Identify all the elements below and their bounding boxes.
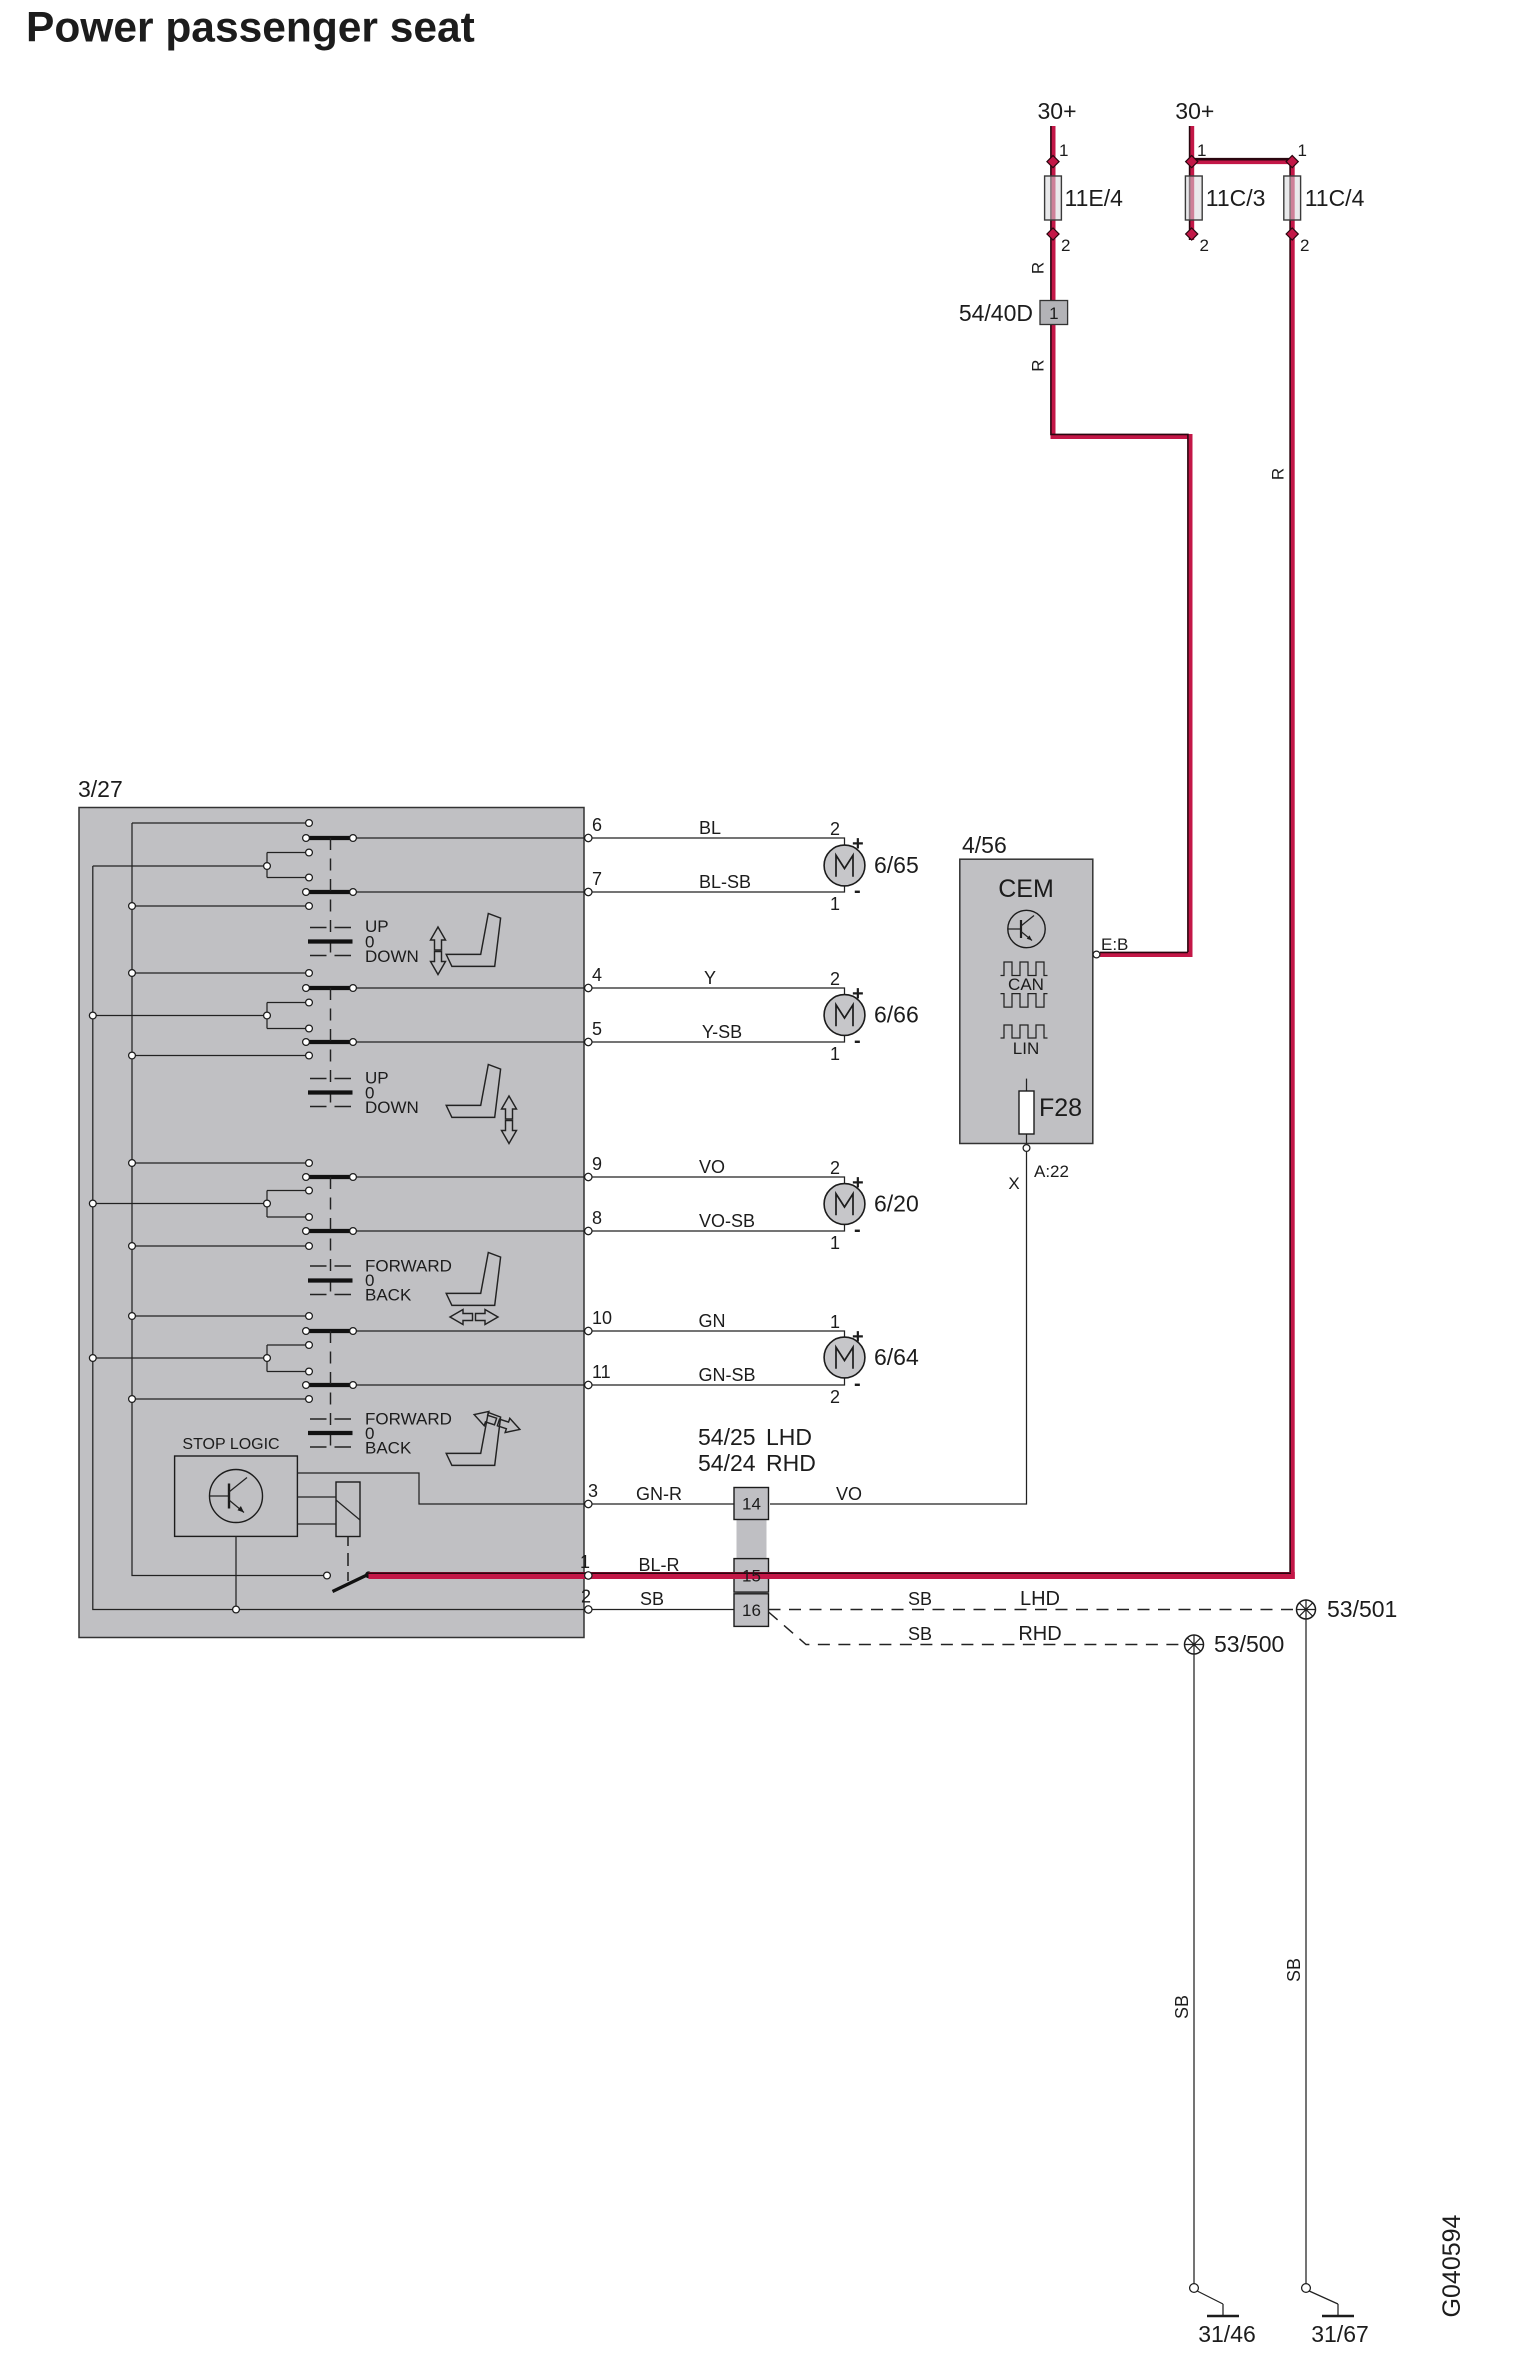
svg-text:4/56: 4/56	[962, 832, 1007, 858]
svg-text:1: 1	[830, 1044, 840, 1064]
svg-text:R: R	[1029, 359, 1048, 371]
svg-text:1: 1	[1298, 141, 1307, 160]
svg-text:2: 2	[830, 819, 840, 839]
svg-text:-: -	[854, 1373, 861, 1395]
svg-text:3: 3	[588, 1481, 598, 1501]
svg-text:G040594: G040594	[1438, 2214, 1466, 2317]
svg-text:2: 2	[1200, 236, 1209, 255]
svg-text:15: 15	[742, 1567, 761, 1586]
svg-text:GN: GN	[699, 1311, 726, 1331]
svg-text:BL: BL	[699, 818, 721, 838]
svg-text:1: 1	[830, 894, 840, 914]
svg-text:11C/4: 11C/4	[1305, 185, 1365, 211]
svg-text:30+: 30+	[1037, 98, 1076, 124]
svg-text:9: 9	[592, 1154, 602, 1174]
svg-text:DOWN: DOWN	[365, 947, 419, 966]
svg-text:VO-SB: VO-SB	[699, 1211, 755, 1231]
svg-text:Y: Y	[704, 968, 716, 988]
svg-text:16: 16	[742, 1601, 761, 1620]
svg-text:R: R	[1029, 262, 1048, 274]
svg-text:2: 2	[581, 1587, 591, 1607]
svg-text:CAN: CAN	[1008, 975, 1044, 994]
svg-text:54/24: 54/24	[698, 1450, 756, 1476]
svg-text:BACK: BACK	[365, 1286, 412, 1305]
svg-text:+: +	[852, 1172, 864, 1194]
svg-text:2: 2	[830, 1158, 840, 1178]
svg-text:31/46: 31/46	[1198, 2321, 1256, 2347]
svg-text:-: -	[854, 880, 861, 902]
svg-text:4: 4	[592, 965, 602, 985]
svg-text:2: 2	[1061, 236, 1070, 255]
svg-text:2: 2	[830, 1387, 840, 1407]
svg-text:2: 2	[830, 969, 840, 989]
svg-text:1: 1	[1049, 304, 1058, 323]
svg-text:FORWARD: FORWARD	[365, 1257, 452, 1276]
svg-text:SB: SB	[908, 1589, 932, 1609]
svg-text:54/25: 54/25	[698, 1424, 756, 1450]
svg-text:30+: 30+	[1175, 98, 1214, 124]
svg-text:1: 1	[1197, 141, 1206, 160]
svg-text:6/20: 6/20	[874, 1191, 919, 1217]
svg-text:6/65: 6/65	[874, 852, 919, 878]
svg-text:1: 1	[830, 1312, 840, 1332]
svg-text:31/67: 31/67	[1311, 2321, 1369, 2347]
svg-text:STOP LOGIC: STOP LOGIC	[182, 1436, 279, 1453]
svg-text:1: 1	[830, 1233, 840, 1253]
svg-text:Y-SB: Y-SB	[702, 1022, 742, 1042]
svg-text:LHD: LHD	[766, 1424, 812, 1450]
svg-text:Power passenger seat: Power passenger seat	[26, 5, 475, 52]
svg-text:VO: VO	[699, 1157, 725, 1177]
svg-text:X: X	[1008, 1174, 1019, 1193]
svg-text:DOWN: DOWN	[365, 1098, 419, 1117]
svg-text:VO: VO	[836, 1484, 862, 1504]
svg-text:SB: SB	[1172, 1995, 1192, 2019]
svg-text:6/66: 6/66	[874, 1002, 919, 1028]
svg-text:SB: SB	[908, 1624, 932, 1644]
svg-text:-: -	[854, 1030, 861, 1052]
svg-text:BL-SB: BL-SB	[699, 872, 751, 892]
svg-text:11: 11	[592, 1362, 611, 1382]
svg-text:2: 2	[1300, 236, 1309, 255]
svg-text:8: 8	[592, 1208, 602, 1228]
svg-text:3/27: 3/27	[78, 776, 123, 802]
svg-text:+: +	[852, 983, 864, 1005]
svg-text:6/64: 6/64	[874, 1344, 919, 1370]
svg-text:LIN: LIN	[1013, 1039, 1039, 1058]
svg-text:BACK: BACK	[365, 1439, 412, 1458]
svg-text:11C/3: 11C/3	[1206, 185, 1266, 211]
svg-text:R: R	[1268, 468, 1287, 480]
svg-text:7: 7	[592, 869, 602, 889]
svg-text:11E/4: 11E/4	[1065, 185, 1124, 211]
svg-text:CEM: CEM	[998, 875, 1054, 903]
svg-text:+: +	[852, 1326, 864, 1348]
svg-text:SB: SB	[640, 1589, 664, 1609]
svg-text:SB: SB	[1284, 1958, 1304, 1982]
svg-text:LHD: LHD	[1020, 1588, 1060, 1610]
svg-text:RHD: RHD	[1018, 1623, 1061, 1645]
svg-text:E:B: E:B	[1101, 935, 1128, 954]
svg-text:6: 6	[592, 815, 602, 835]
svg-text:1: 1	[580, 1552, 590, 1572]
svg-text:5: 5	[592, 1019, 602, 1039]
svg-text:+: +	[852, 833, 864, 855]
svg-text:GN-R: GN-R	[636, 1484, 682, 1504]
svg-text:14: 14	[742, 1495, 761, 1514]
svg-text:53/500: 53/500	[1214, 1631, 1284, 1657]
svg-text:A:22: A:22	[1034, 1162, 1069, 1181]
svg-text:10: 10	[592, 1308, 612, 1328]
svg-text:GN-SB: GN-SB	[698, 1365, 755, 1385]
svg-text:-: -	[854, 1219, 861, 1241]
svg-text:54/40D: 54/40D	[959, 300, 1033, 326]
svg-text:RHD: RHD	[766, 1450, 816, 1476]
svg-text:1: 1	[1059, 141, 1068, 160]
svg-text:53/501: 53/501	[1327, 1596, 1397, 1622]
svg-text:FORWARD: FORWARD	[365, 1410, 452, 1429]
svg-text:F28: F28	[1039, 1094, 1082, 1122]
